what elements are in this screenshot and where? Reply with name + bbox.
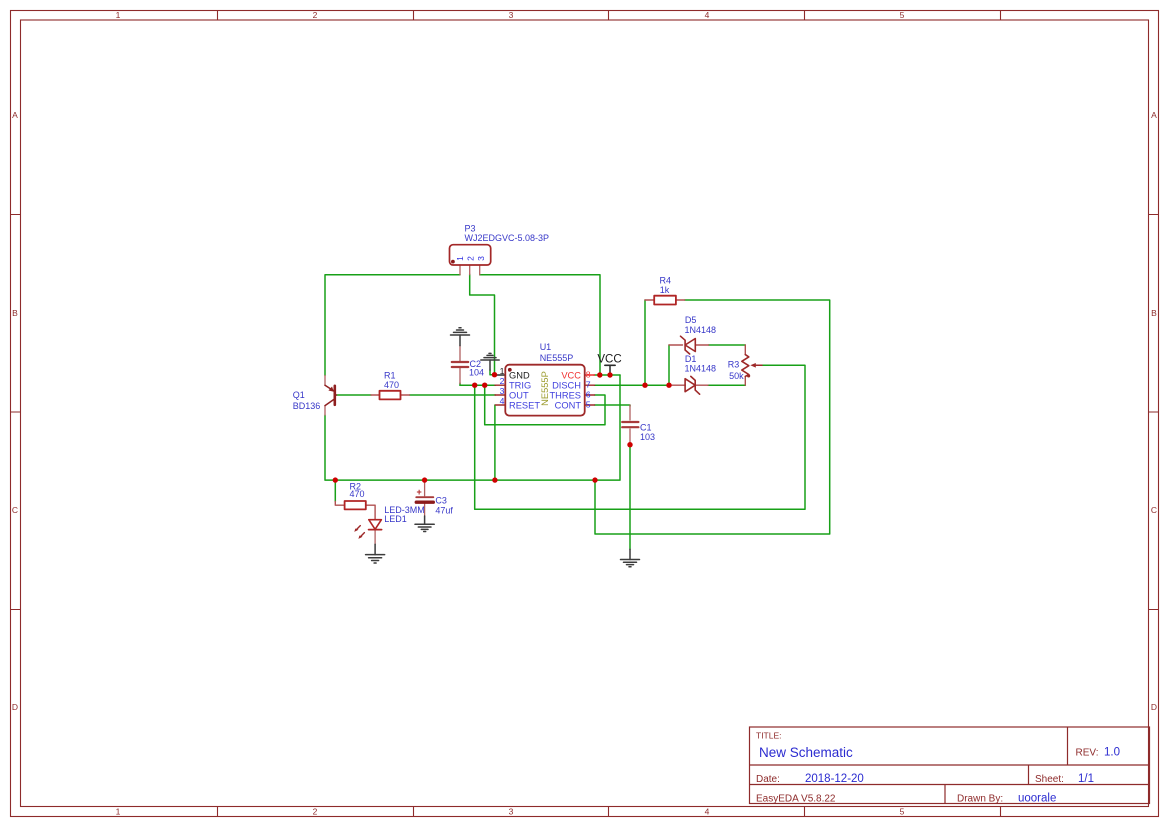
svg-text:4: 4 (500, 396, 505, 406)
svg-text:B: B (1151, 308, 1157, 318)
svg-text:CONT: CONT (555, 400, 582, 410)
svg-text:1: 1 (500, 366, 505, 376)
svg-text:3: 3 (509, 10, 514, 20)
svg-text:DISCH: DISCH (552, 380, 581, 390)
svg-text:50k: 50k (729, 371, 744, 381)
wire D1 cathode to R3 bottom (708, 384, 745, 386)
svg-text:1N4148: 1N4148 (685, 325, 717, 335)
LED LED1 (354, 520, 381, 545)
svg-text:TRIG: TRIG (509, 380, 531, 390)
svg-text:7: 7 (586, 380, 591, 390)
wire DISCH pin7 (595, 384, 670, 386)
svg-text:+: + (417, 487, 422, 497)
svg-text:New Schematic: New Schematic (759, 745, 853, 760)
svg-text:470: 470 (384, 380, 399, 390)
wire D5/D1 left node (668, 345, 670, 385)
ground below LED1 (366, 544, 385, 563)
svg-text:47uf: 47uf (435, 505, 453, 515)
svg-text:WJ2EDGVC-5.08-3P: WJ2EDGVC-5.08-3P (465, 233, 550, 243)
svg-text:LED1: LED1 (384, 514, 407, 524)
svg-text:C: C (12, 505, 18, 515)
svg-text:2: 2 (500, 376, 505, 386)
ground below C1 (621, 549, 640, 567)
svg-text:THRES: THRES (549, 390, 581, 400)
svg-text:1: 1 (116, 807, 121, 817)
svg-text:5: 5 (586, 399, 591, 409)
svg-text:R1: R1 (384, 370, 396, 380)
svg-text:TITLE:: TITLE: (756, 731, 782, 741)
connector P3 (450, 245, 491, 275)
diode D1 1N4148 (669, 376, 708, 394)
svg-text:BD136: BD136 (293, 401, 321, 411)
svg-text:1/1: 1/1 (1078, 773, 1094, 785)
capacitor C2 (452, 346, 468, 384)
svg-text:Q1: Q1 (293, 390, 305, 400)
svg-text:Sheet:: Sheet: (1035, 774, 1064, 785)
svg-text:2: 2 (313, 807, 318, 817)
svg-text:NE555P: NE555P (540, 353, 574, 363)
resistor R1 (371, 391, 410, 400)
wire P3 pin3 to VCC pin8 (480, 275, 600, 375)
svg-text:GND: GND (509, 370, 530, 380)
wire pin8 VCC (594, 374, 620, 376)
svg-text:uoorale: uoorale (1018, 793, 1056, 805)
svg-text:U1: U1 (540, 342, 552, 352)
svg-text:C1: C1 (640, 422, 652, 432)
wire ground elbow to pin1 node (490, 370, 495, 375)
wire CONT pin5 to C1 (595, 405, 631, 406)
wire R4 left to DISCH (644, 300, 646, 385)
svg-text:2: 2 (313, 10, 318, 20)
resistor R4 (645, 296, 685, 305)
VCC power symbol (597, 354, 621, 375)
svg-text:2018-12-20: 2018-12-20 (805, 773, 864, 785)
svg-text:R3: R3 (728, 360, 740, 370)
ground above C2 (451, 328, 470, 346)
svg-text:1: 1 (455, 256, 465, 261)
svg-text:NE555P: NE555P (540, 371, 550, 406)
svg-text:P3: P3 (465, 224, 476, 234)
svg-text:D: D (12, 702, 18, 712)
svg-text:B: B (12, 308, 18, 318)
svg-text:5: 5 (900, 807, 905, 817)
svg-text:104: 104 (469, 368, 484, 378)
svg-text:8: 8 (586, 369, 591, 379)
wire C1 bottom to ground (629, 445, 631, 550)
svg-text:REV:: REV: (1076, 748, 1099, 759)
resistor R2 (335, 501, 375, 520)
svg-text:D: D (1151, 702, 1157, 712)
junction dots (333, 372, 672, 483)
ground at pin1 GND (481, 353, 499, 370)
svg-text:OUT: OUT (509, 390, 529, 400)
wire R1 to OUT pin3 (410, 394, 496, 396)
wire TRIG pin2 with C2 (460, 384, 496, 386)
potentiometer R3 50k (742, 345, 762, 385)
svg-text:EasyEDA V5.8.22: EasyEDA V5.8.22 (756, 794, 836, 805)
svg-text:103: 103 (640, 432, 655, 442)
svg-text:Drawn By:: Drawn By: (957, 794, 1003, 805)
svg-text:VCC: VCC (597, 354, 621, 366)
svg-text:C3: C3 (435, 495, 447, 505)
capacitor C3 47uf (416, 480, 433, 516)
wire R3 wiper to TRIG node (475, 365, 805, 509)
svg-text:2: 2 (465, 256, 475, 261)
svg-text:3: 3 (509, 807, 514, 817)
svg-text:A: A (1151, 110, 1157, 120)
svg-text:1k: 1k (660, 285, 670, 295)
svg-text:Date:: Date: (756, 774, 780, 785)
wire RESET pin4 to rail (494, 405, 496, 480)
wire Q1 collector to VCC rail and up to pin8 (325, 375, 620, 480)
wire TRIG to THRES pin6 (485, 385, 605, 425)
wire R4 right return to rail (595, 300, 830, 534)
wire Q1 base to R1 (337, 394, 372, 396)
svg-text:5: 5 (900, 10, 905, 20)
ground below C3 (415, 516, 434, 532)
svg-text:3: 3 (500, 386, 505, 396)
transistor Q1 (325, 376, 337, 416)
svg-text:6: 6 (586, 389, 591, 399)
svg-text:470: 470 (350, 489, 365, 499)
svg-text:4: 4 (705, 10, 710, 20)
svg-text:RESET: RESET (509, 400, 540, 410)
svg-text:C: C (1151, 505, 1157, 515)
svg-text:1.0: 1.0 (1104, 747, 1120, 759)
wire D5 anode to R3 top (709, 344, 746, 346)
wire C2 elbow to TRIG (460, 383, 462, 385)
wire P3 pin2 to GND node (470, 274, 495, 375)
title block (750, 727, 1150, 804)
wire rail to R2 (334, 480, 336, 501)
svg-text:1: 1 (116, 10, 121, 20)
wire P3 pin1 to Q1 emitter (325, 275, 460, 376)
svg-text:3: 3 (476, 256, 486, 261)
svg-text:R4: R4 (660, 276, 672, 286)
svg-text:1N4148: 1N4148 (685, 363, 717, 373)
svg-text:A: A (12, 110, 18, 120)
svg-text:4: 4 (705, 807, 710, 817)
svg-text:VCC: VCC (561, 370, 581, 380)
op-amp U1 NE555P (495, 365, 595, 416)
diode D5 1N4148 (669, 336, 709, 354)
svg-text:D5: D5 (685, 315, 697, 325)
capacitor C1 (622, 405, 638, 445)
